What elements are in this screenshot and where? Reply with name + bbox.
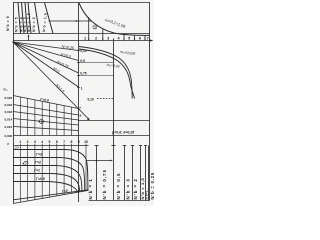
svg-text:4: 4	[41, 140, 43, 144]
fan line F1	[13, 42, 79, 51]
svg-text:N'b = 0,5: N'b = 0,5	[116, 172, 121, 199]
svg-text:0,022: 0,022	[4, 103, 12, 107]
m0 curve upper	[79, 47, 132, 99]
svg-text:0,19: 0,19	[88, 97, 94, 101]
upper grid hline 3	[13, 119, 79, 126]
bottom line right panel	[89, 200, 150, 202]
slanted bottom line B (border)	[13, 190, 89, 203]
fan line F3	[13, 42, 79, 73]
svg-text:N'b = 3: N'b = 3	[126, 178, 131, 199]
svg-text:2: 2	[95, 36, 97, 40]
svg-text:0,25: 0,25	[80, 49, 86, 53]
arrow annotation line y=21	[49, 20, 92, 22]
cluster line L4	[28, 3, 31, 34]
svg-text:10: 10	[84, 140, 88, 144]
cluster line L2	[22, 3, 25, 34]
bottom axis numbers	[19, 140, 88, 144]
upper grid hline 1	[13, 105, 79, 116]
axis end arrow	[150, 39, 154, 41]
svg-text:1: 1	[41, 120, 43, 124]
rotated cluster labels	[6, 12, 48, 32]
fan origin blob	[12, 41, 14, 43]
J curve labels	[34, 152, 45, 181]
upper grid slant curve G05	[13, 96, 79, 109]
svg-text:0,75: 0,75	[80, 71, 86, 75]
svg-text:N'b = 2: N'b = 2	[133, 178, 138, 199]
svg-text:7: 7	[147, 36, 149, 40]
cluster line L5	[35, 3, 40, 34]
svg-text:0,018: 0,018	[4, 110, 12, 114]
top border	[13, 2, 150, 4]
fan line F5	[13, 42, 89, 120]
svg-text:3: 3	[107, 36, 109, 40]
svg-text:Γ=0,5: Γ=0,5	[36, 177, 45, 181]
circled 1	[38, 119, 44, 124]
lower grid verticals	[20, 146, 86, 203]
rotated labels bottom right	[88, 169, 155, 199]
svg-text:N'b = 1: N'b = 1	[88, 178, 93, 199]
right border	[149, 3, 151, 201]
svg-text:8: 8	[70, 140, 72, 144]
cluster line L6	[45, 3, 54, 34]
svg-text:Γ=0: Γ=0	[62, 189, 69, 194]
tick x=145	[144, 35, 146, 40]
svg-text:Γ=3: Γ=3	[36, 152, 42, 156]
svg-text:β=0,6; δ=0,25: β=0,6; δ=0,25	[111, 130, 134, 134]
svg-text:Γ=2: Γ=2	[35, 161, 41, 165]
decay curve top right	[79, 3, 150, 35]
J curve K2	[13, 158, 85, 192]
fan line F4	[13, 42, 79, 87]
axis numbers top right	[84, 36, 149, 40]
circled 2	[22, 161, 28, 166]
svg-text:3: 3	[94, 25, 96, 29]
horizontal line y=120.5	[79, 120, 150, 122]
svg-text:Γ=1: Γ=1	[34, 169, 40, 173]
guide line y=62.5	[79, 62, 114, 64]
up arrow tick at x=28.5	[28, 35, 30, 41]
svg-text:2: 2	[27, 140, 29, 144]
svg-text:1: 1	[84, 36, 86, 40]
svg-text:1: 1	[19, 140, 21, 144]
cluster line L1	[18, 3, 21, 34]
svg-text:0,014: 0,014	[4, 117, 12, 121]
upper grid verticals	[20, 97, 71, 136]
svg-text:N'b = 0,25: N'b = 0,25	[150, 172, 154, 200]
upper grid hline 4	[13, 127, 79, 131]
horizontal line y=136 full width	[13, 135, 150, 137]
fan labels	[52, 45, 74, 94]
tick x=134.5	[134, 35, 136, 40]
J curve K5	[13, 182, 78, 193]
svg-text:Γ: Γ	[80, 107, 82, 111]
bottom right verticals with T caps	[96, 146, 98, 201]
svg-text:0,010: 0,010	[4, 125, 12, 129]
long vertical x=113	[113, 41, 115, 201]
svg-text:N'b=1: N'b=1	[145, 190, 149, 199]
panel divider x=78.5	[78, 3, 80, 203]
svg-text:m₀: m₀	[3, 88, 8, 92]
slanted bottom line A (Gamma=0 curve)	[13, 190, 89, 200]
scale values right of divider	[80, 49, 87, 118]
svg-text:N'b = 5: N'b = 5	[14, 17, 18, 32]
svg-text:3: 3	[34, 140, 36, 144]
svg-text:5: 5	[128, 36, 130, 40]
svg-text:6: 6	[56, 140, 58, 144]
svg-text:2: 2	[25, 162, 27, 166]
upper grid hline 2	[13, 112, 79, 121]
dashed level line	[97, 98, 113, 100]
svg-text:0,026: 0,026	[4, 96, 12, 100]
tick x=102.8	[102, 29, 104, 41]
left axis values	[4, 96, 12, 138]
arrowhead on x=113.5	[113, 39, 115, 41]
svg-text:6: 6	[139, 36, 141, 40]
svg-text:0,5: 0,5	[80, 59, 85, 63]
left border	[13, 3, 15, 204]
divider ticks	[77, 50, 79, 52]
circled 3	[93, 25, 97, 29]
horizontal axis y=33.5	[13, 33, 150, 35]
svg-text:10³: 10³	[15, 146, 19, 150]
svg-text:N'b = 0,75: N'b = 0,75	[102, 169, 107, 199]
tick x=88.7	[88, 17, 90, 41]
cluster line L3	[25, 3, 28, 34]
svg-text:a: a	[80, 114, 82, 118]
J curve K1	[13, 150, 88, 191]
svg-text:N'b = 2: N'b = 2	[32, 17, 36, 32]
svg-text:7: 7	[63, 140, 65, 144]
axis line y=146	[13, 145, 89, 147]
svg-text:0,006: 0,006	[4, 134, 12, 138]
guide line y=75	[79, 75, 114, 77]
svg-text:1: 1	[81, 87, 83, 91]
horizontal axis y=41	[13, 40, 151, 42]
m0 curve lower	[79, 49, 135, 99]
tick x=124	[123, 34, 125, 40]
svg-text:N'b = 2,5: N'b = 2,5	[27, 13, 31, 32]
fan line F2	[13, 42, 79, 61]
svg-text:N'b = 6: N'b = 6	[6, 16, 10, 31]
J curve K4	[13, 174, 80, 192]
svg-text:9: 9	[78, 140, 80, 144]
J curve K3	[13, 166, 82, 192]
arrow line y=160.5	[86, 160, 111, 162]
axis ticks	[20, 144, 86, 146]
svg-text:5: 5	[49, 140, 51, 144]
